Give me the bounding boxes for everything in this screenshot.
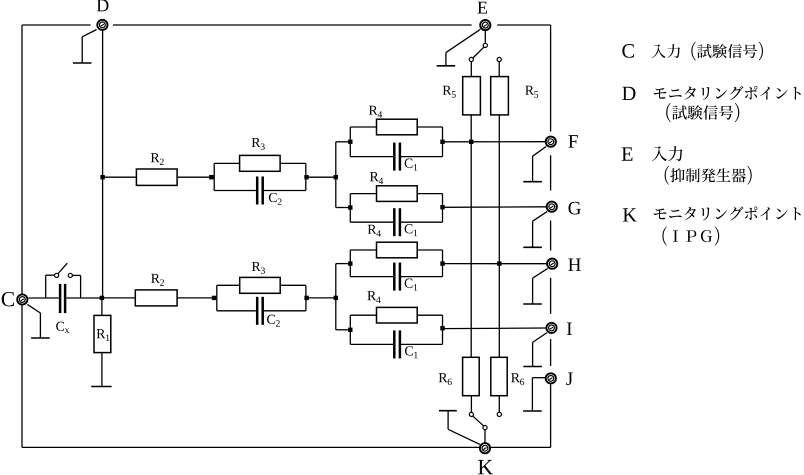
ground at D [73,37,92,63]
terminal F [546,137,556,147]
legend letter D [622,87,635,100]
wire: block1 to terminal F [443,141,546,143]
switch SH blade at H [533,268,548,278]
node: block2 output junction [440,205,444,209]
terminal D [97,20,107,30]
wire: block1 right bracket [442,127,444,157]
resistor R5 (left) [463,77,481,115]
label G [568,202,580,215]
switch SF blade at F [533,146,547,156]
wire: lower R3 block to splitter [306,297,336,299]
wire: block4 to terminal I [443,327,546,330]
node: block3 input junction [348,261,352,265]
terminal H [547,259,557,269]
label I [567,323,572,335]
node: lower R3 block input [212,296,216,300]
switch SE: right contact (to right R5) [497,57,501,61]
ground at F [523,156,542,182]
wire: upper splitter vertical [335,142,337,208]
wire: block2 right bracket [442,194,444,223]
terminal I [546,323,556,333]
node: upper R3 block input [209,175,213,179]
switch SE: blade to left contact [473,47,484,58]
label C [2,292,14,306]
node: block3 output junction [440,261,444,265]
node: lower R3 block output [304,296,308,300]
resistor R6 (right) [491,357,507,395]
legend letter C [622,44,634,58]
node: block2 input junction [348,205,352,209]
wire: Cx to node A [66,297,102,299]
capacitor C1 (block1) [393,143,417,171]
terminal G [547,202,557,212]
switch SD blade at D [82,30,96,37]
label H [568,258,581,270]
switch SK: left contact (to left R6) [469,412,473,416]
label F [568,135,577,147]
switch SCx: left contact [55,273,59,277]
wire: block3 right bracket [442,250,444,277]
switch SE: pivot contact [483,43,487,47]
legend text: monitoring point for D [654,86,801,100]
wire: block2 bottom branch [350,221,442,223]
label R6 (left) [439,373,452,385]
wire: left R5-R6 vertical [470,115,472,357]
wire: R2 to R3 block (lower) [177,297,217,299]
label J [566,372,573,385]
wire: block3 left bracket [349,250,351,277]
ground at H [523,278,542,304]
wire: C2 bottom branch (lower) [217,310,306,312]
wire: block2 to terminal G [443,206,547,209]
wire: R3/C2 right bracket (upper) [305,163,307,190]
wire: block2 top branch [350,193,442,195]
node: junction H wire x right R5 line [497,261,501,265]
ground at J [523,378,542,411]
wire: block4 top branch [350,314,442,316]
resistor R4 (block1) [369,106,417,135]
terminal K [480,443,490,453]
wire: block3 bottom branch [350,276,442,278]
resistor R2 (upper) [136,153,177,185]
label K [478,460,493,474]
node: upper splitter junction [334,175,338,179]
wire: block4 bottom branch [350,343,442,345]
switch SK: right contact (to right R6) [497,412,501,416]
terminal J [546,373,556,383]
ground under R1 [91,386,111,388]
wire: C2 bottom branch (upper) [214,190,306,192]
wire: block3 to terminal H [443,263,547,265]
wire: R1 to ground [101,353,103,387]
switch SCx: left bracket [46,275,55,298]
resistor R1 [94,315,111,352]
node: junction D-vertical x lower chain [100,296,104,300]
wire: upper splitter to block1 [336,141,351,143]
wire: right R5-R6 vertical [498,115,500,357]
node: lower splitter junction [334,296,338,300]
wire: right border segment G-H [550,221,552,251]
switch SE: left contact (to left R5) [469,57,473,61]
wire: C to Cx [28,297,59,299]
wire: left border bus [21,25,23,447]
legend text: monitoring point for K [654,207,801,221]
switch SC blade at C [27,304,40,313]
label Cx [56,322,69,333]
node: upper R3 block output [304,175,308,179]
label E [478,2,488,14]
wire: lower splitter vertical [335,264,337,330]
wire: node A to R1 [101,298,103,315]
wire: lower splitter to block3 [336,263,351,265]
label R6 (right) [511,373,524,385]
capacitor C2 (lower) [256,297,280,327]
wire: top bus (C/D row to E, to top-right corner) [22,24,551,26]
wire: left contact to R5a [470,62,472,77]
legend text: (yokusei hasseiki) for E [665,166,752,185]
switch SCx: right contact [68,273,72,277]
wire: right R6 to contact [498,396,500,413]
wire: right border segment F-G [550,155,552,190]
resistor R6 (left) [463,357,480,395]
capacitor C1 (block2) [393,208,417,236]
resistor R3 (lower) [240,262,281,293]
wire: right border upper segment (corner to F) [550,25,552,132]
wire: R3/C2 left bracket (lower) [216,285,218,311]
wire: lower splitter to block4 [336,329,351,331]
ground at G [523,221,542,247]
wire: right border segment I-J [550,339,552,366]
ground at I [523,342,542,366]
legend text: nyuuryoku (shiken shingou) for C [652,42,763,61]
wire: block4 right bracket [442,315,444,344]
wire: right border segment H-I [550,278,552,314]
wire: block1 top branch [350,126,442,128]
switch SK: pivot contact [483,426,487,430]
resistor R5 (right) [491,77,509,115]
legend letter E [622,147,633,160]
legend text: (shiken shingou) for D [666,103,739,122]
wire: vertical from D to lower chain [102,31,104,298]
switch SCx: right bracket [73,275,81,298]
terminal C [17,294,27,304]
capacitor C2 (upper) [256,177,282,205]
ground at C [31,313,50,338]
wire: node A to R2 (lower) [102,297,135,299]
capacitor Cx [59,284,67,313]
node: block4 output junction [440,326,444,330]
wire: upper R3 block to splitter [306,176,336,178]
node: junction F wire x left R5 line [469,140,473,144]
resistor R4 (block4) [367,291,417,323]
wire: bottom bus [22,446,551,448]
label R5 (right) [525,86,538,98]
resistor R4 (block2) [370,172,417,201]
label R5 (left) [443,86,456,98]
switch SI blade at I [533,333,547,343]
switch SE blade to ground [446,29,481,52]
wire: upper splitter to block2 [336,207,351,209]
resistor R2 (lower) [135,274,177,306]
wire: R2 to R3 block (upper) [177,176,214,178]
label D [97,0,109,11]
ground at K (inverted) [439,411,457,430]
switch SE: pole wire from E [484,31,486,44]
legend letter K [623,208,637,221]
node: block1 output junction [440,140,444,144]
wire: block1 left bracket [349,127,351,157]
resistor R4 (block3) [368,225,418,258]
capacitor C1 (block3) [393,263,417,291]
resistor R3 (upper) [240,138,281,171]
wire: right border segment J to bottom-right corner [550,385,552,448]
switch SK: blade to left contact [473,416,484,426]
wire: block1 bottom branch [350,156,442,158]
legend text: (IPG) for K [662,226,719,245]
wire: block3 top branch [350,249,442,251]
ground at E [437,53,456,66]
node: block4 input junction [348,328,352,332]
wire: node to R2 (upper) [103,176,137,178]
switch SK blade to ground [448,429,480,444]
wire: R3 top branch (upper) [214,162,306,164]
wire: R3/C2 right bracket (lower) [305,285,307,311]
wire: block2 left bracket [349,194,351,223]
wire: R3/C2 left bracket (upper) [213,163,215,190]
switch SCx: blade (open) [58,263,67,273]
node: junction D-vertical x upper chain [100,175,104,179]
wire: J to ground bracket [532,377,545,379]
wire: block4 left bracket [349,315,351,344]
node: block1 input junction [348,140,352,144]
switch SK: pole wire from K [484,430,486,443]
switch SG blade at G [533,211,548,221]
terminal E [480,20,490,30]
wire: right contact to R5b [498,62,500,77]
wire: left R6 to contact [470,396,472,413]
capacitor C1 (block4) [393,330,418,358]
legend text: nyuuryoku for E [652,146,683,161]
wire: R3 top branch (lower) [217,284,306,286]
